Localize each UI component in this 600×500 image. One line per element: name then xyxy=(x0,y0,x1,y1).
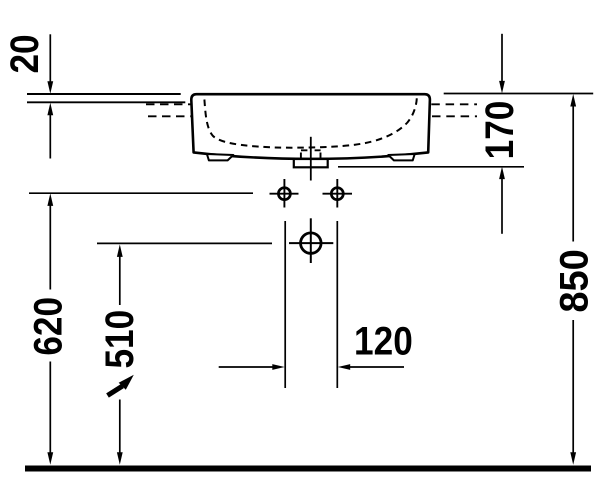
hidden counter edge dashed lower right xyxy=(432,115,477,117)
svg-text:510: 510 xyxy=(97,310,142,369)
svg-text:120: 120 xyxy=(354,319,413,364)
washbasin outer outline xyxy=(191,94,430,159)
dimension 850 line xyxy=(570,94,576,107)
dimension 120 right arrow xyxy=(350,366,404,368)
svg-text:850: 850 xyxy=(553,249,597,312)
faucet hole level reference line (620) xyxy=(29,192,253,194)
hidden counter edge dashed upper right xyxy=(431,103,477,105)
svg-text:620: 620 xyxy=(25,297,70,356)
left fixing hole xyxy=(278,188,290,200)
svg-text:170: 170 xyxy=(477,101,522,160)
bottom of basin reference line (170) xyxy=(338,166,524,168)
left fixing hole crosshair xyxy=(270,193,299,195)
counter lower line left xyxy=(27,101,185,103)
right fixing hole crosshair xyxy=(323,193,353,195)
hidden counter edge dashed lower left xyxy=(148,115,191,117)
dimension 20 upper arrow xyxy=(49,34,51,81)
dimension 170 lower arrow xyxy=(499,167,505,180)
extension line left hole (120 dim) xyxy=(284,221,286,388)
basin bowl hidden outline (dashed) xyxy=(204,98,416,147)
drain outlet circle xyxy=(301,233,322,254)
hidden counter edge dashed upper left xyxy=(146,103,191,105)
dimension 620 line xyxy=(47,193,53,206)
svg-text:20: 20 xyxy=(2,34,47,73)
drain outlet crosshair xyxy=(289,242,333,244)
drain fitting rectangle xyxy=(294,159,328,167)
right foot xyxy=(388,154,414,160)
floor line xyxy=(25,466,591,472)
rim level extension line right xyxy=(444,93,594,95)
break mark arrow on 510 line xyxy=(108,386,123,396)
dimension 120 left arrow xyxy=(219,366,273,368)
left foot xyxy=(207,154,233,160)
dimension 20 lower arrow xyxy=(47,103,53,116)
basin centerline xyxy=(310,137,312,181)
dimension 170 upper arrow xyxy=(501,34,503,81)
drain hole hidden left side xyxy=(300,153,302,159)
right fixing hole xyxy=(331,188,343,200)
drain level reference line (510) xyxy=(97,242,272,244)
extension line right hole (120 dim) xyxy=(336,221,338,388)
drain hole hidden right side xyxy=(320,153,322,159)
counter top line left xyxy=(27,93,181,95)
drain hole hidden top edge (dashed) xyxy=(301,149,321,151)
dimension 510 line xyxy=(117,244,123,257)
